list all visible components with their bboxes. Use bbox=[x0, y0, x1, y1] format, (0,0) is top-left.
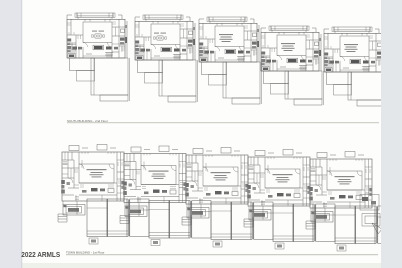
svg-text:SOUTH BUILDING - 2nd Floor: SOUTH BUILDING - 2nd Floor bbox=[67, 119, 108, 123]
unit B2 bbox=[120, 146, 211, 246]
unit B3 bbox=[182, 148, 273, 248]
unit B4 bbox=[244, 150, 335, 250]
unit T5 lower roof terrace bbox=[327, 72, 387, 106]
unit T5 bbox=[324, 27, 384, 72]
unit B1 bbox=[58, 145, 149, 245]
unit B5 bbox=[306, 152, 397, 252]
unit T3 lower roof terrace bbox=[202, 62, 262, 104]
svg-text:2022 ARMLS: 2022 ARMLS bbox=[21, 252, 60, 259]
unit T3 bbox=[199, 17, 259, 62]
left gray photo band bbox=[0, 0, 22, 268]
unit T4 bbox=[261, 26, 321, 71]
top caption underline bbox=[67, 122, 379, 124]
bottom photo shading bbox=[0, 263, 402, 268]
svg-text:TOWN BUILDING - 1st Floor: TOWN BUILDING - 1st Floor bbox=[66, 250, 104, 254]
right gray photo band bbox=[381, 0, 402, 268]
unit T2 lower roof terrace bbox=[138, 60, 198, 102]
bottom caption underline bbox=[66, 254, 378, 256]
unit T4 lower roof terrace bbox=[264, 71, 324, 105]
unit T1 bbox=[67, 13, 127, 58]
unit T1 lower roof terrace bbox=[70, 58, 130, 101]
unit T2 bbox=[135, 15, 195, 60]
